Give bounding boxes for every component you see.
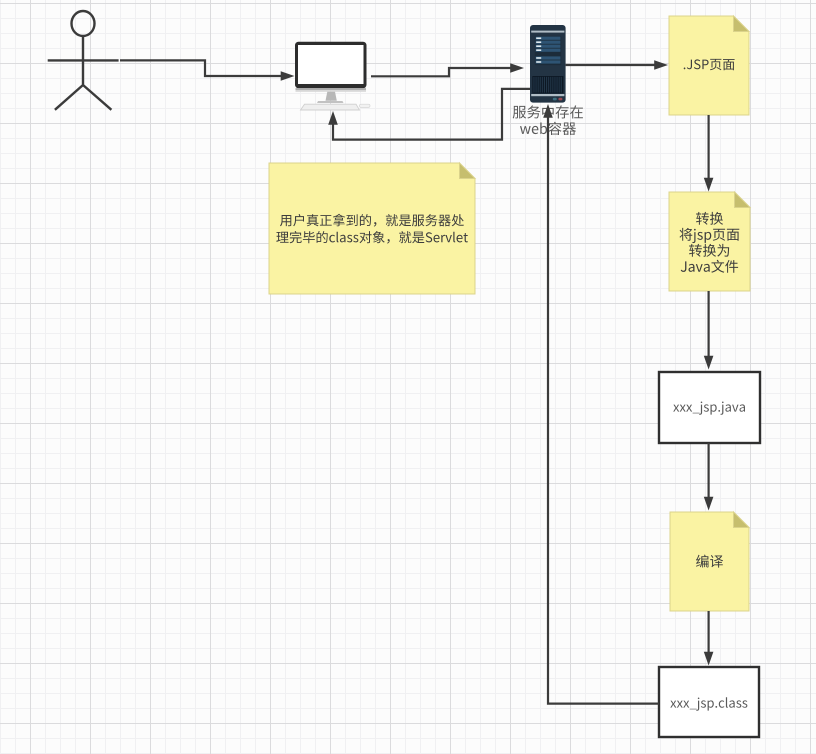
arrowhead into JSP note xyxy=(654,60,668,70)
label: explanation text xyxy=(280,214,464,227)
note: explanation servlet xyxy=(269,163,475,294)
arrowhead into java box xyxy=(704,356,714,370)
note: .JSP page xyxy=(669,16,749,115)
wire monitor to server xyxy=(371,68,513,76)
note: convert jsp to java xyxy=(669,192,750,291)
arrowhead into monitor xyxy=(281,71,295,81)
monitor: user computer icon xyxy=(295,42,370,110)
arrowhead into server bottom xyxy=(543,104,553,118)
arrowhead into server xyxy=(510,63,524,73)
arrowhead into compile note xyxy=(704,497,714,511)
wire server to user computer xyxy=(333,89,530,140)
label: xxx_jsp.java xyxy=(673,402,745,415)
arrowhead into class box xyxy=(704,652,714,666)
wire convert note to java box xyxy=(707,291,709,357)
actor: user stick figure xyxy=(48,11,119,110)
label: xxx_jsp.class xyxy=(670,697,747,711)
wire java box to compile note xyxy=(707,443,709,498)
box: xxx_jsp.java xyxy=(659,372,760,443)
note: compile xyxy=(670,512,749,611)
label: .JSP页面 xyxy=(684,59,735,70)
label: 转换 lines xyxy=(696,212,723,225)
label: 编译 xyxy=(696,555,723,568)
box: xxx_jsp.class xyxy=(659,667,759,737)
wire compile note to class box xyxy=(707,611,709,653)
server: web container tower icon xyxy=(530,25,566,103)
wire class box to server xyxy=(548,116,659,704)
wire user to monitor xyxy=(120,60,282,76)
wire server to JSP note xyxy=(566,64,657,66)
label: server text xyxy=(513,105,583,118)
wire JSP note to convert note xyxy=(707,115,709,179)
arrowhead into keyboard xyxy=(328,111,338,125)
arrowhead into convert note xyxy=(704,178,714,192)
